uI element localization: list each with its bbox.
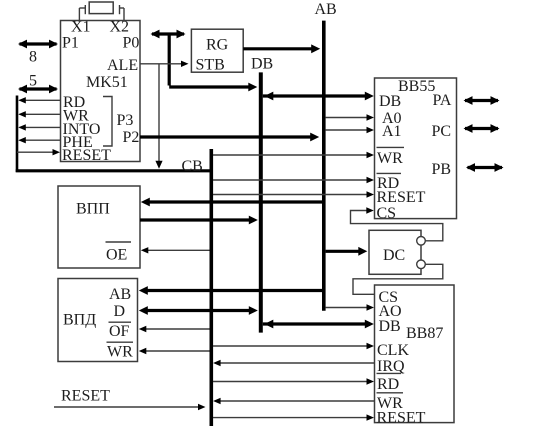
svg-text:AB: AB xyxy=(109,286,131,303)
wire INTO to bundle xyxy=(18,124,60,130)
svg-text:PA: PA xyxy=(433,92,452,109)
label VPP xyxy=(76,201,110,218)
svg-text:5: 5 xyxy=(29,73,37,90)
pin label RD of BB55 xyxy=(377,173,402,192)
P0 bidirectional bus stub xyxy=(151,30,186,39)
port PB bidirectional arrow xyxy=(466,163,504,172)
wire VPP data to DB bus xyxy=(140,216,258,225)
wire RESET from CB bus to BB55 xyxy=(213,191,374,197)
wire ALE to STB xyxy=(140,61,189,67)
port label PB xyxy=(432,161,452,178)
svg-text:X1: X1 xyxy=(71,18,91,35)
wire AB bus to VPP address xyxy=(141,198,322,207)
pin label RESET of BB87 xyxy=(377,409,426,426)
svg-text:RESET: RESET xyxy=(61,388,110,405)
bus width arrow 8 at P1 xyxy=(18,40,58,49)
svg-text:A1: A1 xyxy=(382,123,402,140)
address bus AB vertical xyxy=(322,21,326,311)
label DC xyxy=(383,247,405,264)
microcontroller MK51 block xyxy=(61,21,141,162)
svg-text:RESET: RESET xyxy=(62,147,111,164)
svg-text:BB87: BB87 xyxy=(406,325,443,342)
pin label DB of BB87 xyxy=(379,318,401,335)
svg-text:OF: OF xyxy=(109,323,130,340)
pin label CLK xyxy=(377,342,409,359)
svg-text:IRQ: IRQ xyxy=(377,358,405,375)
wire CB to BB87 RD xyxy=(213,378,374,384)
pin label WR xyxy=(63,108,89,125)
external RESET wire to CB xyxy=(54,404,206,410)
wire P2 to address bus xyxy=(140,133,319,142)
label 8 xyxy=(29,49,37,66)
pin label RESET xyxy=(62,147,111,164)
pin label CS of BB55 xyxy=(377,205,397,222)
wire BB87 WR to CB xyxy=(213,398,374,404)
svg-text:PB: PB xyxy=(432,161,452,178)
port P3 bracket xyxy=(103,97,112,147)
port label P2 xyxy=(123,129,140,146)
program memory VPP block xyxy=(58,186,140,268)
port label P3 xyxy=(117,112,134,129)
wire RESET into MK51 xyxy=(17,149,60,155)
svg-text:CB: CB xyxy=(182,158,203,175)
wire ALE drop to CB xyxy=(155,64,162,169)
wire CB to VPD OF xyxy=(139,326,210,332)
port label P0 xyxy=(123,35,140,52)
wire RD from CB bus to BB55 xyxy=(213,177,374,183)
address decoder DC block xyxy=(369,230,421,274)
wire DC output to BB55 CS xyxy=(351,207,443,241)
port label PC xyxy=(432,123,452,140)
wire RD to bundle xyxy=(18,97,60,103)
crystal oscillator with load capacitors at X1/X2 xyxy=(79,2,124,21)
svg-text:RG: RG xyxy=(206,37,229,54)
pin label PHE xyxy=(63,134,93,151)
control bus CB label xyxy=(182,158,203,175)
svg-text:P0: P0 xyxy=(123,35,140,52)
port label P1 xyxy=(62,35,79,52)
svg-text:RD: RD xyxy=(377,376,399,393)
pin label ALE xyxy=(107,57,138,74)
label VPD xyxy=(63,312,96,329)
svg-text:DC: DC xyxy=(383,247,405,264)
svg-text:RESET: RESET xyxy=(377,189,426,206)
pin label RD of BB87 xyxy=(377,373,402,392)
pin label OE with overline xyxy=(106,242,132,264)
pin label CS of BB87 xyxy=(379,289,399,306)
svg-text:ВПП: ВПП xyxy=(76,201,110,218)
pin label WR of VPD xyxy=(107,342,134,360)
wire CB to VPP OE xyxy=(141,247,210,253)
wire PHE to bundle xyxy=(18,137,60,143)
wire DC output to BB87 CS xyxy=(353,264,443,294)
pin label X1 xyxy=(71,18,91,35)
wire WR from CB bus to BB55 xyxy=(213,152,374,158)
chip name MK51 xyxy=(86,74,128,91)
wire CB to BB87 RESET xyxy=(213,414,374,420)
pin label D of VPD xyxy=(114,303,126,320)
label STB xyxy=(196,56,225,73)
parallel interface BB55 block xyxy=(375,78,457,219)
pin label AB of VPD xyxy=(109,286,131,303)
wire AB bus to VPD address xyxy=(139,286,322,295)
pin label INTO xyxy=(63,121,101,138)
svg-text:P3: P3 xyxy=(117,112,134,129)
wire AB bus to DC input xyxy=(326,247,368,256)
svg-text:AB: AB xyxy=(315,1,337,18)
wire VPD data to DB bus xyxy=(139,306,258,315)
DC inverted output bottom xyxy=(417,260,426,269)
data bus DB vertical xyxy=(259,72,263,332)
pin label A0 xyxy=(382,110,402,127)
pin label DB of BB55 xyxy=(379,93,401,110)
wire WR to bundle xyxy=(18,111,60,117)
svg-text:D: D xyxy=(114,303,126,320)
wire AB bus to BB87 AO xyxy=(326,304,374,310)
label RG xyxy=(206,37,229,54)
port PA bidirectional arrow xyxy=(464,96,500,105)
external RESET label xyxy=(61,388,110,405)
label 5 xyxy=(29,73,37,90)
wire BB87 IRQ to CB xyxy=(213,360,374,366)
wire CB to BB87 CLK xyxy=(213,343,374,349)
svg-text:CLK: CLK xyxy=(377,342,409,359)
wire P0 to data bus xyxy=(169,34,257,91)
control bundle vertical line xyxy=(16,96,19,173)
svg-text:BB55: BB55 xyxy=(398,78,435,95)
DC inverted output top xyxy=(417,237,426,246)
svg-text:WR: WR xyxy=(107,344,133,361)
svg-text:WR: WR xyxy=(377,150,403,167)
pin label AO xyxy=(379,303,402,320)
pin label X2 xyxy=(110,18,130,35)
svg-text:X2: X2 xyxy=(110,18,130,35)
svg-text:STB: STB xyxy=(196,56,225,73)
svg-text:ВПД: ВПД xyxy=(63,312,96,329)
control bus CB vertical xyxy=(210,149,214,426)
bus width arrow 5 xyxy=(18,85,58,94)
svg-text:DB: DB xyxy=(379,318,401,335)
wire CB to VPD WR xyxy=(139,348,210,354)
pin label IRQ xyxy=(377,358,405,375)
pin label WR of BB87 xyxy=(377,393,404,412)
port PC bidirectional arrow xyxy=(464,124,500,133)
wire A1 from AB bus xyxy=(326,127,374,133)
svg-text:MK51: MK51 xyxy=(86,74,128,91)
svg-text:DB: DB xyxy=(379,93,401,110)
address bus AB label xyxy=(315,1,337,18)
wire A0 from AB bus xyxy=(326,114,374,120)
svg-text:OE: OE xyxy=(106,247,127,264)
pin label WR of BB55 xyxy=(377,147,405,166)
svg-text:8: 8 xyxy=(29,49,37,66)
svg-text:P2: P2 xyxy=(123,129,140,146)
address latch register RG block xyxy=(191,29,243,72)
svg-text:P1: P1 xyxy=(62,35,79,52)
port label PA xyxy=(433,92,452,109)
wire RG to address bus AB xyxy=(243,44,320,53)
peripheral interface BB87 block xyxy=(375,285,455,423)
pin label A1 xyxy=(382,123,402,140)
data memory VPD block xyxy=(58,279,138,362)
svg-text:PC: PC xyxy=(432,123,452,140)
wire DB bus to BB55 DB xyxy=(263,92,374,101)
pin label OF with overline xyxy=(109,322,132,340)
wire DB bus to BB87 DB xyxy=(263,320,374,329)
label BB87 xyxy=(406,325,443,342)
pin label RESET of BB55 xyxy=(377,189,426,206)
svg-text:DB: DB xyxy=(251,56,273,73)
label BB55 xyxy=(398,78,435,95)
data bus DB label xyxy=(251,56,273,73)
pin label RD xyxy=(63,94,85,111)
svg-text:ALE: ALE xyxy=(107,57,138,74)
svg-text:RESET: RESET xyxy=(377,409,426,426)
control bus CB feeder wire xyxy=(16,169,210,172)
svg-text:CS: CS xyxy=(377,205,397,222)
